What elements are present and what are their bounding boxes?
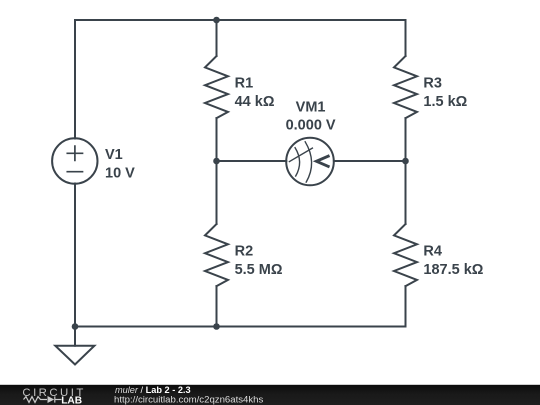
- svg-text:R2: R2: [235, 243, 254, 259]
- wire voltmeter to node B: [334, 160, 406, 162]
- resistor R4: [394, 224, 417, 286]
- wire left vertical lower: [74, 184, 76, 327]
- CircuitLab logo resistor-diode squiggle: [24, 396, 62, 402]
- V1 plus sign: [67, 146, 82, 160]
- svg-text:R4: R4: [423, 243, 442, 259]
- V1 minus sign: [67, 171, 82, 173]
- svg-text:1.5 kΩ: 1.5 kΩ: [423, 94, 467, 110]
- ground symbol: [55, 327, 94, 365]
- wire right column between R3 and R4: [405, 118, 407, 224]
- svg-text:http://circuitlab.com/c2qzn6at: http://circuitlab.com/c2qzn6ats4khs: [114, 395, 264, 405]
- VM1 needle: [289, 148, 312, 162]
- node dot bottom ground: [72, 323, 79, 330]
- wire node A to voltmeter: [217, 160, 287, 162]
- svg-text:muler / Lab 2 - 2.3: muler / Lab 2 - 2.3: [115, 385, 191, 395]
- wire middle column between R1 and R2: [216, 118, 218, 224]
- svg-text:LAB: LAB: [61, 395, 82, 405]
- wire middle column below R2: [216, 286, 218, 326]
- resistor R3: [394, 56, 417, 118]
- node dot middle left: [213, 158, 220, 165]
- voltage source V1 body: [52, 138, 97, 183]
- VM1 chevron: [316, 156, 328, 166]
- VM1 meter scale arc small: [295, 148, 300, 176]
- wire bottom horizontal: [75, 326, 406, 328]
- svg-text:44 kΩ: 44 kΩ: [235, 94, 275, 110]
- resistor R1: [205, 56, 228, 118]
- wire top horizontal: [75, 19, 406, 21]
- node dot bottom middle: [213, 323, 220, 330]
- svg-text:VM1: VM1: [296, 99, 326, 115]
- svg-text:V1: V1: [105, 147, 123, 163]
- wire middle column top stub: [216, 20, 218, 56]
- svg-text:R1: R1: [235, 75, 254, 91]
- VM1 meter scale arc large: [305, 142, 311, 182]
- svg-text:0.000 V: 0.000 V: [286, 118, 336, 134]
- wire right column below R4: [405, 286, 407, 326]
- node dot top: [213, 17, 220, 24]
- node dot middle right: [402, 158, 409, 165]
- wire right column top stub: [405, 20, 407, 56]
- voltmeter VM1 body: [286, 138, 334, 186]
- svg-text:R3: R3: [423, 75, 442, 91]
- svg-text:5.5 MΩ: 5.5 MΩ: [235, 262, 283, 278]
- svg-text:10 V: 10 V: [105, 165, 135, 181]
- resistor R2: [205, 224, 228, 286]
- svg-text:187.5 kΩ: 187.5 kΩ: [423, 262, 483, 278]
- wire left vertical upper: [74, 20, 76, 139]
